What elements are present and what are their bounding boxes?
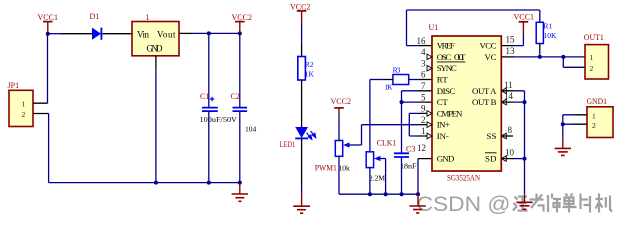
svg-text:SS: SS (487, 131, 497, 141)
svg-text:OUT A: OUT A (472, 86, 497, 96)
svg-text:U1: U1 (429, 23, 439, 32)
svg-text:CLK1: CLK1 (377, 139, 397, 148)
svg-text:C1: C1 (200, 92, 209, 101)
svg-text:VREF: VREF (437, 41, 455, 51)
svg-text:OUT1: OUT1 (584, 33, 604, 42)
svg-text:13: 13 (506, 46, 516, 56)
svg-text:SYNC: SYNC (437, 63, 457, 73)
svg-text:JP1: JP1 (8, 81, 20, 90)
svg-text:C3: C3 (406, 145, 415, 154)
svg-text:2: 2 (421, 115, 426, 125)
svg-text:PWM1: PWM1 (315, 164, 337, 173)
svg-text:VCC: VCC (480, 41, 497, 51)
svg-text:1: 1 (421, 126, 426, 136)
svg-text:Vout: Vout (157, 30, 176, 40)
svg-text:1: 1 (592, 112, 596, 121)
svg-text:VCC2: VCC2 (232, 13, 253, 22)
svg-text:12: 12 (417, 143, 426, 153)
svg-text:OSC: OSC (437, 52, 452, 62)
svg-text:10K: 10K (544, 31, 558, 40)
svg-text:10k: 10k (339, 164, 351, 173)
svg-text:RT: RT (437, 75, 449, 85)
svg-text:2: 2 (592, 121, 596, 130)
svg-text:1: 1 (22, 100, 26, 109)
svg-text:1K: 1K (384, 83, 393, 92)
svg-text:GND1: GND1 (587, 97, 608, 106)
svg-text:Vin: Vin (137, 30, 150, 40)
svg-text:LED1: LED1 (280, 140, 296, 149)
svg-text:IN+: IN+ (437, 120, 450, 130)
svg-text:DISC: DISC (437, 86, 456, 96)
svg-text:8: 8 (508, 125, 513, 135)
svg-text:6: 6 (421, 70, 426, 80)
svg-text:GND: GND (437, 154, 455, 164)
svg-text:R2: R2 (305, 60, 314, 69)
svg-text:1: 1 (146, 13, 150, 22)
svg-text:4: 4 (421, 47, 426, 57)
svg-text:104: 104 (245, 125, 257, 134)
svg-text:D1: D1 (90, 12, 100, 21)
svg-text:OUT: OUT (454, 52, 466, 62)
svg-text:15: 15 (506, 35, 516, 45)
svg-text:SD: SD (485, 154, 497, 164)
svg-text:VCC2: VCC2 (331, 97, 352, 106)
svg-text:CSDN @: CSDN @ (417, 192, 511, 216)
svg-text:9: 9 (421, 104, 426, 114)
svg-text:VC: VC (485, 52, 497, 62)
svg-text:3: 3 (421, 58, 426, 68)
svg-text:7: 7 (421, 81, 426, 91)
svg-text:IN-: IN- (437, 131, 449, 141)
svg-text:CMPEN: CMPEN (437, 108, 463, 118)
svg-text:OUT B: OUT B (472, 97, 497, 107)
svg-text:100uF/50V: 100uF/50V (200, 115, 238, 124)
svg-text:C2: C2 (231, 92, 240, 101)
svg-text:18nF: 18nF (400, 162, 417, 171)
svg-text:5: 5 (421, 92, 426, 102)
svg-text:16: 16 (417, 36, 427, 46)
svg-text:SG3525AN: SG3525AN (447, 173, 480, 182)
svg-text:R3: R3 (393, 66, 401, 75)
svg-text:1K: 1K (305, 70, 315, 79)
svg-text:CT: CT (437, 97, 449, 107)
svg-text:GND: GND (147, 44, 164, 54)
svg-text:2.2M: 2.2M (369, 174, 385, 183)
svg-text:1: 1 (590, 53, 594, 62)
svg-text:2: 2 (22, 110, 26, 119)
svg-text:VCC1: VCC1 (38, 13, 59, 22)
svg-text:VCC1: VCC1 (514, 13, 535, 22)
svg-text:2: 2 (590, 64, 594, 73)
svg-text:R1: R1 (544, 22, 553, 31)
